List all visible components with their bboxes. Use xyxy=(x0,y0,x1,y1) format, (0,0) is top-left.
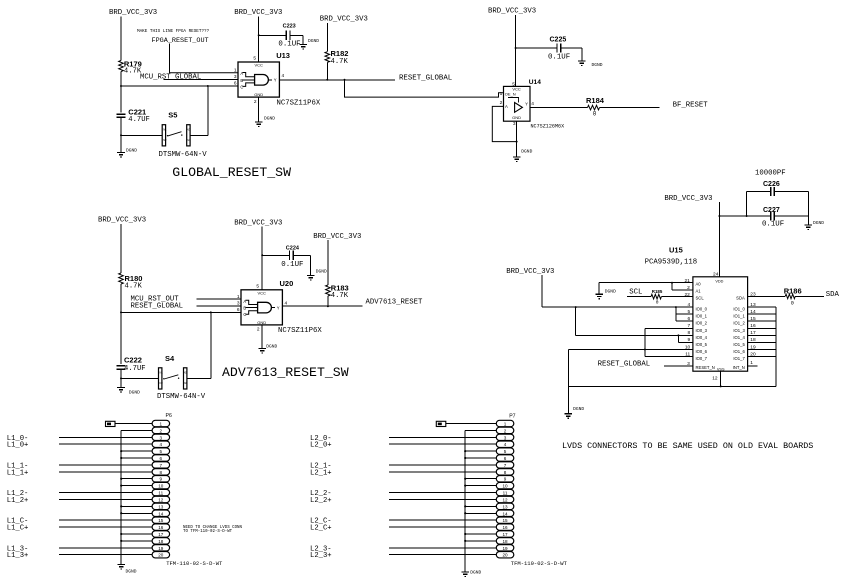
wire IO1 bus vertical xyxy=(775,307,777,386)
svg-text:L1_2+: L1_2+ xyxy=(7,497,29,505)
wire P7 pin4 signal L2_0+ xyxy=(389,443,496,445)
svg-text:16: 16 xyxy=(502,525,508,530)
svg-text:12: 12 xyxy=(158,497,164,502)
svg-text:BRD_VCC_3V3: BRD_VCC_3V3 xyxy=(488,8,536,16)
svg-text:S4: S4 xyxy=(165,354,175,363)
svg-text:N1: N1 xyxy=(163,128,167,132)
svg-text:DGND: DGND xyxy=(266,343,277,349)
wire P7 pin20 signal L2_3+ xyxy=(389,554,496,556)
svg-text:DGND: DGND xyxy=(521,148,532,154)
svg-text:RESET_GLOBAL: RESET_GLOBAL xyxy=(598,360,651,368)
svg-text:3: 3 xyxy=(237,301,240,307)
P7 pin 18 xyxy=(496,538,514,544)
svg-text:NC7SZ11P6X: NC7SZ11P6X xyxy=(277,99,321,107)
capacitor C223 xyxy=(286,31,290,40)
U14 OE_N internal lead xyxy=(508,98,519,103)
svg-text:4: 4 xyxy=(160,442,163,447)
P6 pin 17 xyxy=(152,531,170,537)
svg-text:R186: R186 xyxy=(784,287,802,296)
wire rail below R179 xyxy=(120,72,122,113)
svg-text:2: 2 xyxy=(500,100,503,106)
svg-text:DGND: DGND xyxy=(592,62,603,68)
svg-text:2: 2 xyxy=(687,285,690,291)
svg-text:10: 10 xyxy=(158,484,164,489)
wire P7 pin19 signal L2_3- xyxy=(389,547,496,549)
capacitor C225 xyxy=(557,43,561,52)
wire SCL to R185 xyxy=(627,296,651,298)
svg-text:GND: GND xyxy=(257,320,266,325)
switch S4 xyxy=(159,368,162,389)
svg-text:DGND: DGND xyxy=(126,148,137,154)
node junction VCC / C223 xyxy=(258,34,260,36)
svg-text:4.7UF: 4.7UF xyxy=(124,365,146,373)
svg-text:24: 24 xyxy=(713,271,719,277)
svg-text:SCL: SCL xyxy=(696,296,705,301)
wire C221 to ground xyxy=(120,117,122,152)
svg-text:N3: N3 xyxy=(187,128,191,132)
wire strap IO0_3 IO0_7 xyxy=(645,327,693,329)
U15 pin 13 IO1_0 wire xyxy=(748,306,776,308)
no-connect symbol at P6 pin 1 xyxy=(106,421,116,426)
P7 pin 5 xyxy=(496,448,514,454)
P6 pin 18 xyxy=(152,538,170,544)
svg-text:9: 9 xyxy=(160,477,163,482)
U15 pin 21 A0 wire to ground xyxy=(599,282,693,284)
svg-text:11: 11 xyxy=(503,491,508,496)
wire S4 to pin6 line xyxy=(210,312,212,378)
U14 buffer triangle xyxy=(515,103,523,113)
svg-text:19: 19 xyxy=(158,546,164,551)
svg-text:15: 15 xyxy=(502,518,508,523)
wire IO0_6 to ground rail xyxy=(568,349,693,351)
svg-text:19: 19 xyxy=(502,546,508,551)
svg-text:18: 18 xyxy=(158,539,164,544)
U15 pin 18 IO1_5 wire xyxy=(748,341,776,343)
svg-text:1: 1 xyxy=(160,422,163,427)
svg-text:22: 22 xyxy=(684,292,690,298)
wire P6 pin4 signal L1_0+ xyxy=(59,443,152,445)
svg-text:N4: N4 xyxy=(184,381,188,385)
wire P7 pin1 to NC xyxy=(446,423,497,425)
svg-text:L2_0+: L2_0+ xyxy=(310,442,332,450)
svg-text:20: 20 xyxy=(158,553,164,558)
svg-text:U20: U20 xyxy=(280,279,294,288)
svg-text:NC7SZ11P6X: NC7SZ11P6X xyxy=(278,327,322,335)
P6 pin 1 xyxy=(152,420,170,426)
svg-text:N1: N1 xyxy=(160,371,164,375)
U15 pin 14 IO1_1 wire xyxy=(748,313,776,315)
svg-text:BRD_VCC_3V3: BRD_VCC_3V3 xyxy=(109,9,157,17)
resistor R186 xyxy=(785,294,795,299)
svg-text:10: 10 xyxy=(502,484,508,489)
svg-text:8: 8 xyxy=(160,470,163,475)
svg-text:12: 12 xyxy=(502,497,508,502)
svg-text:9: 9 xyxy=(504,477,507,482)
svg-text:TFM-110-02-S-D-WT: TFM-110-02-S-D-WT xyxy=(166,560,223,567)
svg-text:17: 17 xyxy=(750,330,756,336)
svg-text:2: 2 xyxy=(504,428,507,433)
svg-text:Y: Y xyxy=(277,305,280,310)
wire P6 pin20 signal L1_3+ xyxy=(59,554,152,556)
wire P6 pin10 ground stub xyxy=(121,485,152,487)
wire P7 pin12 signal L2_2+ xyxy=(389,498,496,500)
svg-text:20: 20 xyxy=(750,351,756,357)
svg-text:4: 4 xyxy=(504,442,507,447)
wire P6 pin7 signal L1_1- xyxy=(59,464,152,466)
wire VCC to C223 xyxy=(259,34,287,36)
svg-text:BRD_VCC_3V3: BRD_VCC_3V3 xyxy=(664,195,712,203)
wire R183 to output net xyxy=(327,296,329,306)
op-amp U13 NC7SZ11P6X body xyxy=(238,62,279,97)
P7 pin 10 xyxy=(496,482,514,488)
wire joining C226/C227 left xyxy=(746,192,748,217)
wire P7 pin16 signal L2_C+ xyxy=(389,526,496,528)
P7 pin 11 xyxy=(496,489,514,495)
wire P7 pin11 signal L2_2- xyxy=(389,492,496,494)
ground DGND below U20 xyxy=(258,349,266,354)
switch S5 xyxy=(162,125,165,146)
svg-text:14: 14 xyxy=(750,309,756,315)
P6 pin 4 xyxy=(152,441,170,447)
svg-text:4.7K: 4.7K xyxy=(331,58,349,66)
svg-text:A0: A0 xyxy=(696,282,702,287)
node junction VCC / C225 xyxy=(515,47,517,49)
wire P6 pin14 ground stub xyxy=(121,512,152,514)
wire P7 pin17 ground stub xyxy=(465,533,496,535)
svg-text:23: 23 xyxy=(750,292,756,298)
svg-text:3: 3 xyxy=(687,361,690,367)
no-connect symbol at P7 pin 1 xyxy=(436,421,446,426)
ground DGND below C221 xyxy=(117,153,125,158)
svg-text:IO1_6: IO1_6 xyxy=(733,349,745,354)
wire ground rail to DGND xyxy=(567,386,569,413)
svg-text:0: 0 xyxy=(791,301,794,307)
P7 pin 17 xyxy=(496,531,514,537)
svg-text:DGND: DGND xyxy=(813,220,824,226)
node junction rail / C input wire xyxy=(120,85,122,87)
wire drop to U14 OE_N xyxy=(345,80,504,97)
resistor R185 xyxy=(651,294,661,299)
svg-text:L1_1+: L1_1+ xyxy=(7,469,29,477)
svg-text:IO1_2: IO1_2 xyxy=(733,321,745,326)
svg-text:15: 15 xyxy=(158,518,164,523)
svg-text:5: 5 xyxy=(160,449,163,454)
wire R186 to SDA xyxy=(795,295,824,297)
P7 pin 15 xyxy=(496,517,514,523)
svg-text:IO1_0: IO1_0 xyxy=(733,307,745,312)
svg-text:A: A xyxy=(240,71,243,76)
svg-text:IO1_4: IO1_4 xyxy=(733,335,745,340)
wire P7 pin18 ground stub xyxy=(465,540,496,542)
U15 pin 1 INT_N stub xyxy=(748,365,758,367)
P7 pin 9 xyxy=(496,476,514,482)
svg-text:RESET_GLOBAL: RESET_GLOBAL xyxy=(399,74,452,82)
U15 pin 15 IO1_2 wire xyxy=(748,320,776,322)
svg-text:U14: U14 xyxy=(529,79,541,86)
wire U14 GND pin down xyxy=(516,121,518,157)
svg-text:6: 6 xyxy=(504,456,507,461)
svg-text:10000PF: 10000PF xyxy=(755,170,786,178)
wire S4 right to vertical xyxy=(187,377,211,379)
svg-text:PCA9539D,118: PCA9539D,118 xyxy=(645,259,698,267)
svg-text:L2_2+: L2_2+ xyxy=(310,497,332,505)
svg-text:GND: GND xyxy=(512,115,521,120)
U15 pin 17 IO1_4 wire xyxy=(748,334,776,336)
U15 pin 16 IO1_3 wire xyxy=(748,327,776,329)
wire VCC to pin 4 IO0_0 xyxy=(542,306,693,308)
wire C223 to ground xyxy=(290,34,303,36)
wire bottom ground rail of U15 xyxy=(568,385,776,387)
P6 pin 14 xyxy=(152,510,170,516)
svg-text:BRD_VCC_3V3: BRD_VCC_3V3 xyxy=(320,16,368,24)
wire R185 to U15 pin 22 xyxy=(661,296,693,298)
svg-text:P7: P7 xyxy=(509,413,515,419)
wire rail to U20 pin 6 xyxy=(121,311,241,313)
svg-text:IO1_5: IO1_5 xyxy=(733,342,745,347)
P6 pin 2 xyxy=(152,427,170,433)
svg-text:OE_N: OE_N xyxy=(505,92,516,97)
wire P6 pin2 ground drop xyxy=(121,429,152,431)
wire rail to S4 left xyxy=(121,377,159,379)
svg-text:3: 3 xyxy=(160,435,163,440)
transistor-buffer U14 body xyxy=(504,86,531,121)
wire P6 pin8 signal L1_1+ xyxy=(59,471,152,473)
svg-text:4.7K: 4.7K xyxy=(125,283,143,291)
wire VCC to C224 xyxy=(262,254,289,256)
wire P6 pin9 ground stub xyxy=(121,478,152,480)
P6 pin 9 xyxy=(152,476,170,482)
svg-text:ADV7613_RESET_SW: ADV7613_RESET_SW xyxy=(222,365,349,380)
P7 pin 12 xyxy=(496,496,514,502)
svg-text:R184: R184 xyxy=(586,96,605,105)
svg-text:BRD_VCC_3V3: BRD_VCC_3V3 xyxy=(234,219,282,227)
wire strap IO0_4 xyxy=(575,307,577,335)
svg-text:DGND: DGND xyxy=(129,390,140,396)
P6 pin 7 xyxy=(152,462,170,468)
svg-text:4: 4 xyxy=(285,301,288,307)
wire U14 input A grounded loop xyxy=(492,106,516,141)
wire P6 pin5 ground stub xyxy=(121,450,152,452)
wire P6 pin18 ground stub xyxy=(121,540,152,542)
svg-text:IO0_1: IO0_1 xyxy=(696,314,708,319)
ground DGND below U14 xyxy=(513,157,521,162)
wire P7 pin6 ground stub xyxy=(465,457,496,459)
svg-text:RESET_N: RESET_N xyxy=(696,365,715,370)
svg-text:VSS: VSS xyxy=(717,367,725,371)
svg-text:BRD_VCC_3V3: BRD_VCC_3V3 xyxy=(234,9,282,17)
wire P7 pin5 ground stub xyxy=(465,450,496,452)
wire P6 pin6 ground stub xyxy=(121,457,152,459)
svg-text:5: 5 xyxy=(253,56,256,62)
P7 pin 14 xyxy=(496,510,514,516)
svg-text:IO0_7: IO0_7 xyxy=(696,356,708,361)
svg-text:GND: GND xyxy=(254,92,263,97)
P6 pin 6 xyxy=(152,455,170,461)
capacitor C224 xyxy=(290,251,294,260)
svg-text:17: 17 xyxy=(502,532,508,537)
svg-text:P6: P6 xyxy=(166,413,172,419)
svg-text:IO0_2: IO0_2 xyxy=(696,321,708,326)
svg-text:IO0_0: IO0_0 xyxy=(696,307,708,312)
svg-text:U13: U13 xyxy=(276,51,290,60)
node junction rail / S5 wire xyxy=(120,134,122,136)
wire P6 pin13 ground stub xyxy=(121,505,152,507)
svg-text:VCC: VCC xyxy=(254,63,263,68)
wire rail to S5 left xyxy=(121,134,162,136)
svg-text:DTSMW-64N-V: DTSMW-64N-V xyxy=(159,151,208,159)
svg-text:0.1UF: 0.1UF xyxy=(281,261,303,269)
svg-text:SCL: SCL xyxy=(629,288,642,296)
svg-text:7: 7 xyxy=(160,463,163,468)
svg-text:FPGA_RESET_OUT: FPGA_RESET_OUT xyxy=(152,37,209,45)
svg-text:13: 13 xyxy=(502,504,508,509)
svg-text:1: 1 xyxy=(504,422,507,427)
svg-text:4.7UF: 4.7UF xyxy=(128,116,150,124)
svg-text:N2: N2 xyxy=(163,138,167,142)
P6 pin 10 xyxy=(152,482,170,488)
svg-text:SDA: SDA xyxy=(736,296,745,301)
capacitor C221 xyxy=(116,114,125,117)
svg-text:BRD_VCC_3V3: BRD_VCC_3V3 xyxy=(98,217,146,225)
svg-text:2: 2 xyxy=(254,99,257,105)
svg-text:1: 1 xyxy=(750,360,753,366)
node junction output / drop to U14 xyxy=(344,79,346,81)
svg-text:SDA: SDA xyxy=(826,291,840,299)
svg-text:TFM-110-02-S-D-WT: TFM-110-02-S-D-WT xyxy=(511,560,568,567)
svg-text:12: 12 xyxy=(712,376,718,382)
svg-text:IO1_7: IO1_7 xyxy=(733,356,745,361)
P6 pin 20 xyxy=(152,552,170,558)
ground DGND right of C225 xyxy=(578,61,586,66)
svg-text:14: 14 xyxy=(158,511,164,516)
svg-text:ADV7613_RESET: ADV7613_RESET xyxy=(366,299,424,307)
wire C225 to ground xyxy=(561,47,582,49)
wire C224 to ground xyxy=(293,254,311,256)
svg-text:IO1_3: IO1_3 xyxy=(733,328,745,333)
svg-text:16: 16 xyxy=(158,525,164,530)
P7 pin 20 xyxy=(496,552,514,558)
svg-text:0.1UF: 0.1UF xyxy=(548,53,570,61)
wire P7 pin15 signal L2_C- xyxy=(389,519,496,521)
svg-text:MCU_RST_GLOBAL: MCU_RST_GLOBAL xyxy=(140,74,201,82)
svg-text:GLOBAL_RESET_SW: GLOBAL_RESET_SW xyxy=(172,165,291,180)
node junction rail / S4 wire xyxy=(120,377,122,379)
svg-text:NC7SZ126M6X: NC7SZ126M6X xyxy=(531,124,565,130)
svg-text:0.1UF: 0.1UF xyxy=(278,41,300,49)
P7 pin 6 xyxy=(496,455,514,461)
P6 pin 19 xyxy=(152,545,170,551)
svg-text:C227: C227 xyxy=(763,207,780,214)
wire P6 pin3 signal L1_0- xyxy=(59,436,152,438)
svg-text:3: 3 xyxy=(504,435,507,440)
svg-text:C225: C225 xyxy=(550,37,567,44)
wire caps to ground xyxy=(807,192,809,226)
svg-text:6: 6 xyxy=(160,456,163,461)
wire S5 to pin6 line xyxy=(207,86,209,135)
svg-text:0.1UF: 0.1UF xyxy=(762,220,784,228)
U20 AND gate symbol xyxy=(258,302,272,313)
svg-text:DGND: DGND xyxy=(605,289,616,295)
svg-text:1: 1 xyxy=(237,294,240,300)
svg-text:17: 17 xyxy=(158,532,164,537)
svg-text:L2_C+: L2_C+ xyxy=(310,525,332,533)
svg-text:DGND: DGND xyxy=(316,268,327,274)
svg-text:2: 2 xyxy=(257,327,260,333)
svg-text:R185: R185 xyxy=(652,289,663,294)
P6 pin 11 xyxy=(152,489,170,495)
svg-text:8: 8 xyxy=(504,470,507,475)
wire P6 pin16 signal L1_C+ xyxy=(59,526,152,528)
op-amp U20 NC7SZ11P6X body xyxy=(241,290,282,325)
svg-text:18: 18 xyxy=(502,539,508,544)
resistor R182 xyxy=(325,52,330,63)
wire strap IO0_1 IO0_2 xyxy=(675,307,677,321)
wire RESET_GLOBAL to pin 3 RESET_N xyxy=(664,365,693,367)
P7 pin 2 xyxy=(496,427,514,433)
wire FPGA_RESET_OUT to U13 pin 1 xyxy=(170,44,239,73)
wire P7 pin14 ground stub xyxy=(465,512,496,514)
P6 pin 3 xyxy=(152,434,170,440)
P7 pin 13 xyxy=(496,503,514,509)
wire P6 pin15 signal L1_C- xyxy=(59,519,152,521)
P6 pin 15 xyxy=(152,517,170,523)
svg-text:RESET_GLOBAL: RESET_GLOBAL xyxy=(131,303,184,311)
capacitor C222 xyxy=(116,366,125,369)
wire U20 Y output xyxy=(282,305,362,307)
svg-text:IO0_3: IO0_3 xyxy=(696,328,708,333)
svg-text:DGND: DGND xyxy=(573,406,584,412)
svg-text:L2_1+: L2_1+ xyxy=(310,469,332,477)
wire P6 pin11 signal L1_2- xyxy=(59,492,152,494)
svg-text:TO TFM-110-02-S-D-WT: TO TFM-110-02-S-D-WT xyxy=(183,530,233,534)
P7 pin 1 xyxy=(496,420,514,426)
svg-text:BF_RESET: BF_RESET xyxy=(673,101,709,109)
wire MCU_RST_GLOBAL to U13 pin 3 xyxy=(164,79,239,81)
wire P6 pin1 to NC xyxy=(115,423,152,425)
wire RESET_GLOBAL to U20 pin 3 xyxy=(197,305,241,307)
wire P7 pin8 signal L2_1+ xyxy=(389,471,496,473)
svg-text:1: 1 xyxy=(500,91,503,97)
ground DGND for A0/A1 xyxy=(595,294,603,299)
ground DGND right of C224 xyxy=(307,275,315,280)
wire P6 pin19 signal L1_3- xyxy=(59,547,152,549)
node junction rail / C input wire middle xyxy=(120,311,122,313)
svg-text:16: 16 xyxy=(750,323,756,329)
svg-text:DGND: DGND xyxy=(264,116,275,122)
svg-text:DTSMW-64N-V: DTSMW-64N-V xyxy=(157,393,206,401)
U13 AND gate symbol xyxy=(255,75,269,86)
wire strap IO0_5 xyxy=(677,334,679,336)
node junction VCC / C224 xyxy=(261,254,263,256)
svg-text:14: 14 xyxy=(502,511,508,516)
wire P6 pin17 ground stub xyxy=(121,533,152,535)
wire U14 Y output xyxy=(530,107,588,109)
svg-text:3: 3 xyxy=(513,121,516,127)
P7 pin 19 xyxy=(496,545,514,551)
svg-text:VCC: VCC xyxy=(257,290,266,295)
wire U13 GND pin to ground xyxy=(258,97,260,122)
svg-text:Y: Y xyxy=(525,102,528,107)
P7 pin 3 xyxy=(496,434,514,440)
svg-text:N2: N2 xyxy=(160,381,164,385)
svg-text:N3: N3 xyxy=(184,371,188,375)
svg-text:DGND: DGND xyxy=(126,568,137,574)
P7 pin 8 xyxy=(496,469,514,475)
wire rail to U13 pin 6 xyxy=(121,85,238,87)
svg-text:0: 0 xyxy=(656,299,659,305)
wire R182 to output net xyxy=(326,62,328,79)
svg-text:7: 7 xyxy=(504,463,507,468)
